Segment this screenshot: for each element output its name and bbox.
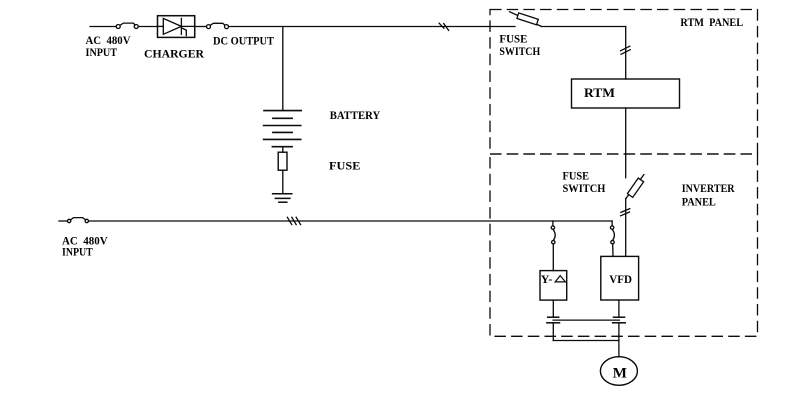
svg-text:DC OUTPUT: DC OUTPUT (213, 34, 274, 48)
svg-text:SWITCH: SWITCH (499, 44, 540, 58)
wire: vertical drop to RTM (625, 27, 627, 80)
svg-text:VFD: VFD (609, 272, 632, 286)
drawout link (left) (548, 316, 559, 318)
Y-delta starter box (540, 271, 567, 301)
SCR symbol inside charger (163, 18, 181, 34)
svg-text:Y-: Y- (541, 272, 553, 286)
svg-text:INVERTER: INVERTER (682, 181, 735, 195)
svg-text:CHARGER: CHARGER (144, 47, 204, 61)
svg-text:INPUT: INPUT (62, 245, 93, 259)
switch S1 (AC 480V input disconnect) (116, 25, 120, 29)
battery B1 (264, 110, 301, 112)
motor M (600, 357, 637, 386)
ground (battery circuit) (273, 193, 292, 195)
VFD box (601, 256, 639, 300)
svg-text:M: M (613, 366, 627, 382)
svg-text:RTM PANEL: RTM PANEL (680, 15, 743, 29)
fuse switch FS2 (inverter panel input) (626, 175, 644, 199)
svg-text:BATTERY: BATTERY (330, 108, 381, 122)
drawout link (right) (614, 316, 625, 318)
triple-slash on AC bus (287, 217, 291, 224)
switch S3 (bottom AC input disconnect) (67, 219, 70, 222)
wire: RTM to fuse switch FS2 (625, 108, 627, 178)
fuse switch FS1 (RTM panel input) (510, 12, 542, 27)
node A: battery tap junction (282, 27, 284, 111)
wire: bypass join (553, 340, 619, 342)
wire: Y-delta box to drawout links (552, 300, 554, 317)
double-slash break on RTM drop (621, 46, 630, 51)
wire through charger (158, 25, 164, 27)
wire: AC input to switch S1 (90, 26, 116, 28)
wire: AC 480V input (bottom) (59, 220, 68, 222)
fuse F1 (battery fuse) (278, 152, 287, 170)
wire: battery to fuse F1 (282, 147, 284, 153)
contactor K1 (Y-delta branch) (552, 221, 554, 226)
wire: fuse to ground (282, 170, 284, 194)
RTM panel dashed border (490, 10, 758, 337)
svg-text:FUSE: FUSE (329, 159, 360, 173)
svg-text:RTM: RTM (584, 85, 615, 100)
double-slash break on DC bus (439, 23, 444, 28)
inverter panel dashed border (490, 154, 758, 336)
RTM box U1 (572, 79, 680, 108)
wire below FS2 with double-slash (625, 199, 627, 257)
wire: charger to switch S2 (195, 26, 207, 28)
svg-text:SWITCH: SWITCH (563, 181, 606, 195)
charger box (158, 16, 195, 38)
svg-text:INPUT: INPUT (86, 45, 118, 59)
contactor K2 (VFD branch) (611, 221, 613, 226)
wire: bottom AC bus to inverter panel (89, 220, 613, 222)
wire: VFD box down to motor (618, 300, 620, 317)
motor bus between drawout links (553, 319, 619, 321)
switch S2 (DC output disconnect) (207, 25, 211, 29)
wire: fuse switch to RTM drop (542, 26, 626, 28)
wire: switch S1 to charger (138, 26, 157, 28)
svg-text:PANEL: PANEL (682, 194, 716, 208)
wire: DC output bus to RTM panel (229, 26, 516, 28)
